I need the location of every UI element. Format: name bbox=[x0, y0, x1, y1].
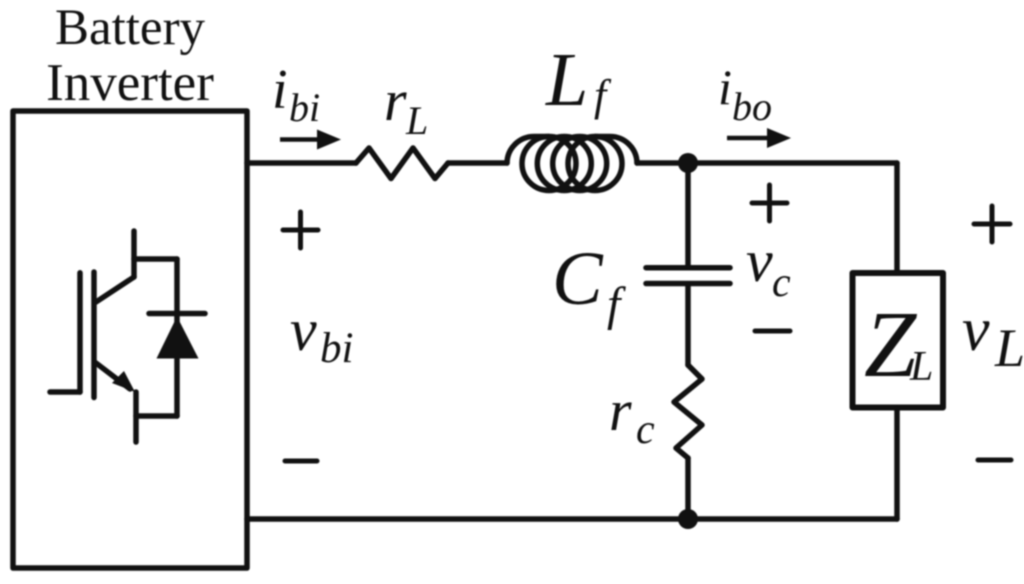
svg-text:i: i bbox=[272, 59, 288, 121]
svg-text:L: L bbox=[909, 344, 933, 390]
svg-text:Battery: Battery bbox=[55, 0, 206, 56]
svg-text:v: v bbox=[962, 296, 990, 364]
svg-text:bo: bo bbox=[732, 84, 772, 129]
svg-text:bi: bi bbox=[289, 85, 320, 130]
svg-text:c: c bbox=[772, 260, 791, 306]
svg-text:r: r bbox=[384, 68, 407, 133]
svg-text:v: v bbox=[290, 297, 317, 363]
svg-text:i: i bbox=[718, 59, 732, 115]
svg-text:f: f bbox=[594, 71, 612, 120]
svg-text:L: L bbox=[545, 38, 588, 122]
svg-text:f: f bbox=[607, 278, 626, 331]
svg-text:Inverter: Inverter bbox=[46, 54, 214, 112]
svg-text:c: c bbox=[636, 407, 655, 453]
svg-text:bi: bi bbox=[320, 325, 353, 372]
svg-text:L: L bbox=[405, 98, 428, 143]
svg-text:C: C bbox=[552, 237, 604, 321]
svg-text:v: v bbox=[746, 228, 773, 294]
svg-text:r: r bbox=[609, 378, 632, 443]
svg-text:L: L bbox=[994, 318, 1024, 378]
